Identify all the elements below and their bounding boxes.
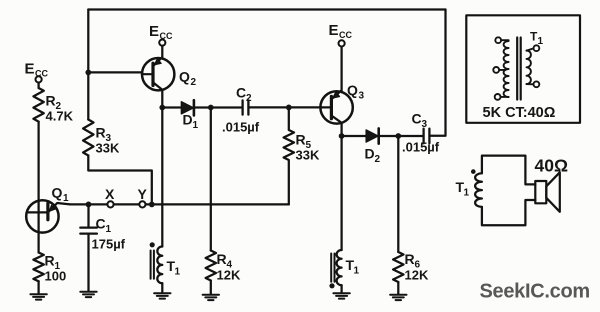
svg-text:2: 2 xyxy=(191,77,197,88)
transistor Q2 xyxy=(142,57,174,90)
wire T1 right to ground xyxy=(340,285,342,292)
diode D1 xyxy=(181,100,194,115)
svg-text:C: C xyxy=(236,85,246,101)
svg-text:1: 1 xyxy=(354,266,360,277)
ground under T1 right xyxy=(333,293,349,298)
wire Q2 collector down to D1 row xyxy=(161,90,163,108)
svg-text:C: C xyxy=(412,111,422,127)
label Q1 xyxy=(52,185,70,205)
label C2 .015uf xyxy=(222,85,260,135)
svg-text:R: R xyxy=(45,253,55,269)
svg-text:.015µf: .015µf xyxy=(402,140,440,155)
resistor R3 xyxy=(83,120,93,156)
svg-text:Y: Y xyxy=(138,186,148,202)
svg-text:40Ω: 40Ω xyxy=(535,156,569,176)
label T1 in box xyxy=(530,30,544,48)
resistor R2 xyxy=(33,88,43,122)
inductor T1 left primary coil xyxy=(150,242,163,283)
label D2 xyxy=(365,146,381,166)
wire C2 to Q3 base xyxy=(249,106,321,108)
svg-text:CC: CC xyxy=(339,30,352,40)
label X xyxy=(105,186,115,202)
resistor R5 xyxy=(284,107,294,204)
wire Q1 emitter to R1 xyxy=(37,233,39,253)
wire R2 to Q1 xyxy=(37,122,39,201)
wire R4 column from D1 row down xyxy=(210,108,212,251)
svg-text:D: D xyxy=(365,146,375,162)
svg-text:1: 1 xyxy=(106,224,112,235)
wire right vertical from top bus down to C3 row xyxy=(430,10,446,136)
resistor R1 xyxy=(33,253,43,282)
svg-text:C: C xyxy=(96,216,106,232)
node junction Q2/D1/T1 xyxy=(159,105,165,111)
label Q2 xyxy=(179,69,197,89)
wire Ecc1 to R2 xyxy=(37,83,39,88)
svg-text:12K: 12K xyxy=(405,268,429,283)
wire T1 left column from D1 junction down xyxy=(161,108,163,247)
wire Q2 base from left column to Q2 xyxy=(88,71,142,73)
label 5K CT:40ohm xyxy=(483,105,556,121)
node junction R4 drop xyxy=(208,105,214,111)
wire R4 to ground xyxy=(210,281,212,295)
node junction at left column / Q2 base xyxy=(85,70,91,76)
ground under R1 xyxy=(30,294,46,299)
transformer detail box xyxy=(466,15,580,123)
svg-text:Q: Q xyxy=(179,69,190,85)
svg-text:1: 1 xyxy=(538,36,544,47)
wire D2 to C3 xyxy=(379,135,423,137)
node junction R3 drop on row xyxy=(149,202,155,208)
svg-text:E: E xyxy=(25,61,35,78)
wire D1 row left xyxy=(162,106,181,108)
label R4 12K xyxy=(217,251,241,283)
wire R6 column from D2 row down xyxy=(397,136,399,252)
resistor R4 xyxy=(206,251,216,281)
terminal Ecc1 xyxy=(36,76,42,82)
svg-text:E: E xyxy=(329,22,339,39)
wire Q1 collector row to R5 column (X Y row) xyxy=(70,203,289,205)
svg-text:D: D xyxy=(183,112,193,128)
label T1 left xyxy=(167,258,181,278)
label R1 100 xyxy=(45,253,67,284)
speaker driver xyxy=(535,172,560,212)
svg-text:3: 3 xyxy=(422,119,428,130)
node junction C1 top xyxy=(86,202,92,208)
svg-text:R: R xyxy=(296,132,306,148)
label D1 xyxy=(183,112,199,132)
wire Ecc3 to Q3 emitter xyxy=(340,47,342,91)
node Y xyxy=(139,201,145,207)
label R5 33K xyxy=(296,132,320,163)
wire D2 row left xyxy=(342,135,366,137)
transistor Q1 xyxy=(26,200,70,232)
svg-text:Q: Q xyxy=(52,185,63,201)
diode D2 xyxy=(366,128,379,143)
svg-text:E: E xyxy=(149,23,159,40)
ground under R4 xyxy=(203,295,219,300)
label 40ohm xyxy=(535,156,569,176)
svg-text:33K: 33K xyxy=(296,148,320,163)
capacitor C1 xyxy=(80,204,97,291)
svg-text:33K: 33K xyxy=(96,141,120,156)
label Y xyxy=(138,186,148,202)
svg-text:12K: 12K xyxy=(217,268,241,283)
transformer primary winding with center tap xyxy=(493,37,508,100)
ground under C1 xyxy=(80,292,96,297)
label R2 4.7K xyxy=(46,93,74,124)
wire R6 to ground xyxy=(397,282,399,294)
svg-text:R: R xyxy=(96,125,106,141)
node junction R5 top xyxy=(286,105,292,111)
svg-text:R: R xyxy=(46,93,56,109)
svg-text:2: 2 xyxy=(246,93,252,104)
capacitor C3 xyxy=(424,129,430,144)
svg-text:SeekIC.com: SeekIC.com xyxy=(480,281,590,303)
wire top bus from left column to right vertical xyxy=(88,8,445,10)
label C1 175uf xyxy=(92,216,126,252)
svg-text:.015µf: .015µf xyxy=(222,120,260,135)
transformer secondary winding xyxy=(527,45,540,87)
label Ecc supply 1 xyxy=(25,61,49,79)
svg-text:5K CT:40Ω: 5K CT:40Ω xyxy=(483,105,556,121)
wire left column from top bus down to R3 top xyxy=(87,10,89,120)
capacitor C2 xyxy=(243,100,249,114)
svg-text:2: 2 xyxy=(375,154,381,165)
ground under R6 xyxy=(390,295,406,300)
node junction Q3/D2/T1 xyxy=(339,133,345,139)
svg-text:4.7K: 4.7K xyxy=(46,109,74,124)
resistor R6 xyxy=(393,252,403,282)
svg-text:R: R xyxy=(405,251,415,267)
wire T1 left to ground xyxy=(161,283,163,292)
node X xyxy=(107,201,113,207)
label C3 .015uf xyxy=(402,111,440,155)
svg-text:1: 1 xyxy=(63,193,69,204)
inductor T1 right primary coil xyxy=(329,250,341,288)
svg-text:1: 1 xyxy=(175,267,181,278)
terminal Ecc3 xyxy=(339,40,345,46)
svg-text:1: 1 xyxy=(464,188,470,199)
svg-text:100: 100 xyxy=(45,269,67,284)
node junction R6 drop xyxy=(395,133,401,139)
terminal Ecc2 xyxy=(159,40,165,46)
svg-text:1: 1 xyxy=(193,120,199,131)
wire Q3 collector down to D2 row xyxy=(340,123,342,136)
speaker module box with coil xyxy=(471,156,535,226)
label R3 33K xyxy=(96,125,120,156)
ground under T1 left xyxy=(154,293,170,298)
label Ecc supply 3 xyxy=(329,22,353,40)
wire R3 bottom to node Y xyxy=(88,156,152,202)
wire T1 right column from D2 junction down xyxy=(340,136,342,250)
svg-text:R: R xyxy=(217,251,227,267)
label Ecc supply 2 xyxy=(149,23,173,41)
wire D1 to C2 xyxy=(195,106,243,108)
svg-text:175µf: 175µf xyxy=(92,237,126,252)
wire R1 to ground xyxy=(37,281,39,293)
svg-text:3: 3 xyxy=(359,91,365,102)
label T1 speaker xyxy=(456,179,470,199)
label R6 12K xyxy=(405,251,429,283)
svg-text:Q: Q xyxy=(347,82,358,98)
label Q3 xyxy=(347,82,365,102)
transformer core xyxy=(517,38,521,100)
wire Ecc2 to Q2 emitter xyxy=(161,46,163,57)
label T1 right xyxy=(346,257,360,277)
svg-text:X: X xyxy=(105,186,115,202)
transistor Q3 xyxy=(320,90,352,123)
